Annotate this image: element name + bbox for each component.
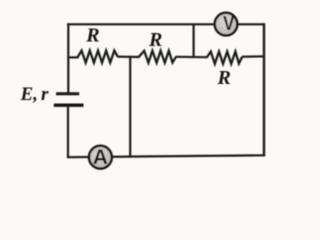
wire branch row lead from left vertical to R1 — [68, 56, 79, 58]
svg-text:R: R — [85, 25, 99, 47]
wire left lower (battery to bottom-left corner) — [67, 107, 69, 158]
svg-text:A: A — [93, 146, 108, 169]
voltmeter U-V — [215, 13, 238, 36]
wire between R2 and R3 — [176, 56, 208, 59]
wire left upper (top-left corner down to battery) — [67, 23, 69, 92]
resistor R3 zigzag — [207, 52, 242, 64]
wire between R1 and junction node — [117, 55, 139, 58]
battery E,r bottom plate — [54, 104, 84, 107]
battery E,r top plate — [56, 92, 79, 95]
wire bottom (through ammeter to bottom-right corner) — [67, 155, 265, 157]
wire top (node from battery + to voltmeter) — [67, 23, 265, 25]
svg-text:R: R — [148, 29, 162, 51]
resistor R1 zigzag — [78, 51, 118, 63]
svg-text:V: V — [223, 13, 235, 35]
wire junction drop to bottom (between R1 and R2) — [129, 56, 131, 157]
ammeter U-A — [89, 146, 112, 169]
svg-text:r: r — [41, 84, 49, 105]
wire right (top-right corner to bottom-right corner) — [263, 23, 265, 156]
resistor R2 zigzag — [139, 51, 177, 63]
svg-text:R: R — [217, 67, 231, 89]
wire R3 to right vertical — [242, 55, 265, 57]
svg-text:E,: E, — [20, 84, 38, 105]
wire junction rise to top (between R2 and R3) — [193, 24, 195, 57]
